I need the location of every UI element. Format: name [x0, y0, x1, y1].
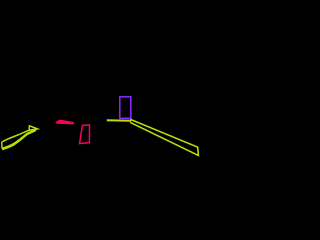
- 3D bounding box (yellow-green) left vehicle: near-bottom edge: [2, 129, 37, 149]
- 2D bounding box (violet) pedestrian: [120, 97, 131, 119]
- 3D bounding box (yellow-green) right vehicle: far wedge: [130, 119, 198, 155]
- 3D bounding box (yellow-green) left vehicle: end-face triangle: [29, 126, 37, 130]
- 3D bounding box (yellow-green) left vehicle: left end edge: [1, 142, 3, 149]
- 2D bounding box (pink-crimson) trapezoid object: [80, 125, 90, 144]
- 3D bounding box (yellow-green) left vehicle: top long edge: [2, 130, 30, 142]
- 3D bounding box (yellow-green) right vehicle: near edge band: [107, 119, 132, 122]
- 3D bounding box (yellow-green) left vehicle: far-bottom edge: [2, 130, 36, 149]
- 3D bounding box (pink) small sliver object: [56, 120, 74, 124]
